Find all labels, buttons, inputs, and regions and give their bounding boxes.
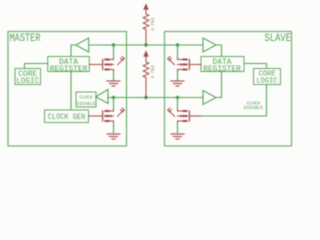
wire SDA bus [89,44,203,46]
wire register to SCL buffer output [216,72,222,98]
slave block frame [165,32,292,147]
wire register to FET gate [89,64,102,66]
ground slave SCL [171,134,184,139]
master block frame [8,32,127,147]
ground master SCL [107,134,120,139]
node SDA junction pull-up [144,43,147,46]
buffer master SDA input [76,38,89,52]
node SCL junction master FET drain [112,96,115,99]
node SDA junction slave FET drain [176,43,179,46]
supply VCC arrow 1 [143,3,148,9]
svg-text:CLOCK: CLOCK [79,96,93,101]
buffer master SCL input [96,90,108,104]
svg-text:LOGIC: LOGIC [16,77,39,86]
wire clock gen to FET gate [89,115,103,117]
wire slave SCL FET gate pin [189,115,201,117]
ground slave SDA [171,81,184,86]
buffer slave SCL input [203,91,216,105]
svg-text:REGISTER: REGISTER [203,65,241,74]
wire FET drain to SDA (slave) [177,45,179,57]
svg-text:4.7kΩ: 4.7kΩ [151,65,156,79]
wire FET drain to SDA [113,45,115,57]
wire SCL bus [108,97,203,99]
block DATA REGISTER (slave) [201,57,244,72]
node SCL junction pull-up [144,96,147,99]
transistor Q1 master SDA open-drain FET [103,57,125,73]
wire FET drain to SCL (slave) [177,98,179,109]
wire register to clock gen [70,72,72,111]
svg-text:REGISTER: REGISTER [50,65,88,74]
block CLOCK GEN (master) [45,110,89,123]
wire FET source to ground [113,73,115,81]
block DATA REGISTER (master) [48,57,90,72]
node SCL junction slave FET drain [176,96,179,99]
svg-text:MASTER: MASTER [10,33,42,45]
wire register to FET gate (slave SDA) [190,64,202,66]
wire FET source to ground (slave) [177,73,179,81]
svg-text:DISABLE: DISABLE [244,105,264,111]
wire buffer to data register [71,45,76,57]
transistor Q4 slave SCL open-drain FET [168,108,190,124]
transistor Q2 master SCL open-drain FET [103,108,125,124]
wire core logic to FET gate net [201,85,267,117]
block CORE LOGIC (slave) [254,69,281,85]
transistor Q3 slave SDA open-drain FET [168,57,190,73]
supply VCC arrow 2 [143,50,148,56]
svg-text:DISABLE: DISABLE [77,102,96,107]
wire FET source to ground [113,124,115,134]
buffer slave SDA input [203,38,216,52]
resistor Rp2 (SCL pull-up) [143,57,149,98]
wire FET drain to SCL [113,98,115,109]
block CLOCK DISABLE (master) [76,92,96,107]
wire register to core logic (slave) [244,64,267,69]
block CORE LOGIC (master) [15,69,41,85]
node SDA junction master FET drain [112,43,115,46]
ground master SDA [107,81,120,86]
resistor Rp1 (SDA pull-up) [143,9,149,46]
wire core logic to register [25,64,48,69]
svg-text:4.7kΩ: 4.7kΩ [151,17,156,31]
wire buffer to data register (slave) [216,45,222,57]
svg-text:CLOCK GEN: CLOCK GEN [48,114,86,122]
wire FET source to ground (slave SCL) [177,124,179,134]
svg-text:SLAVE: SLAVE [265,33,292,45]
